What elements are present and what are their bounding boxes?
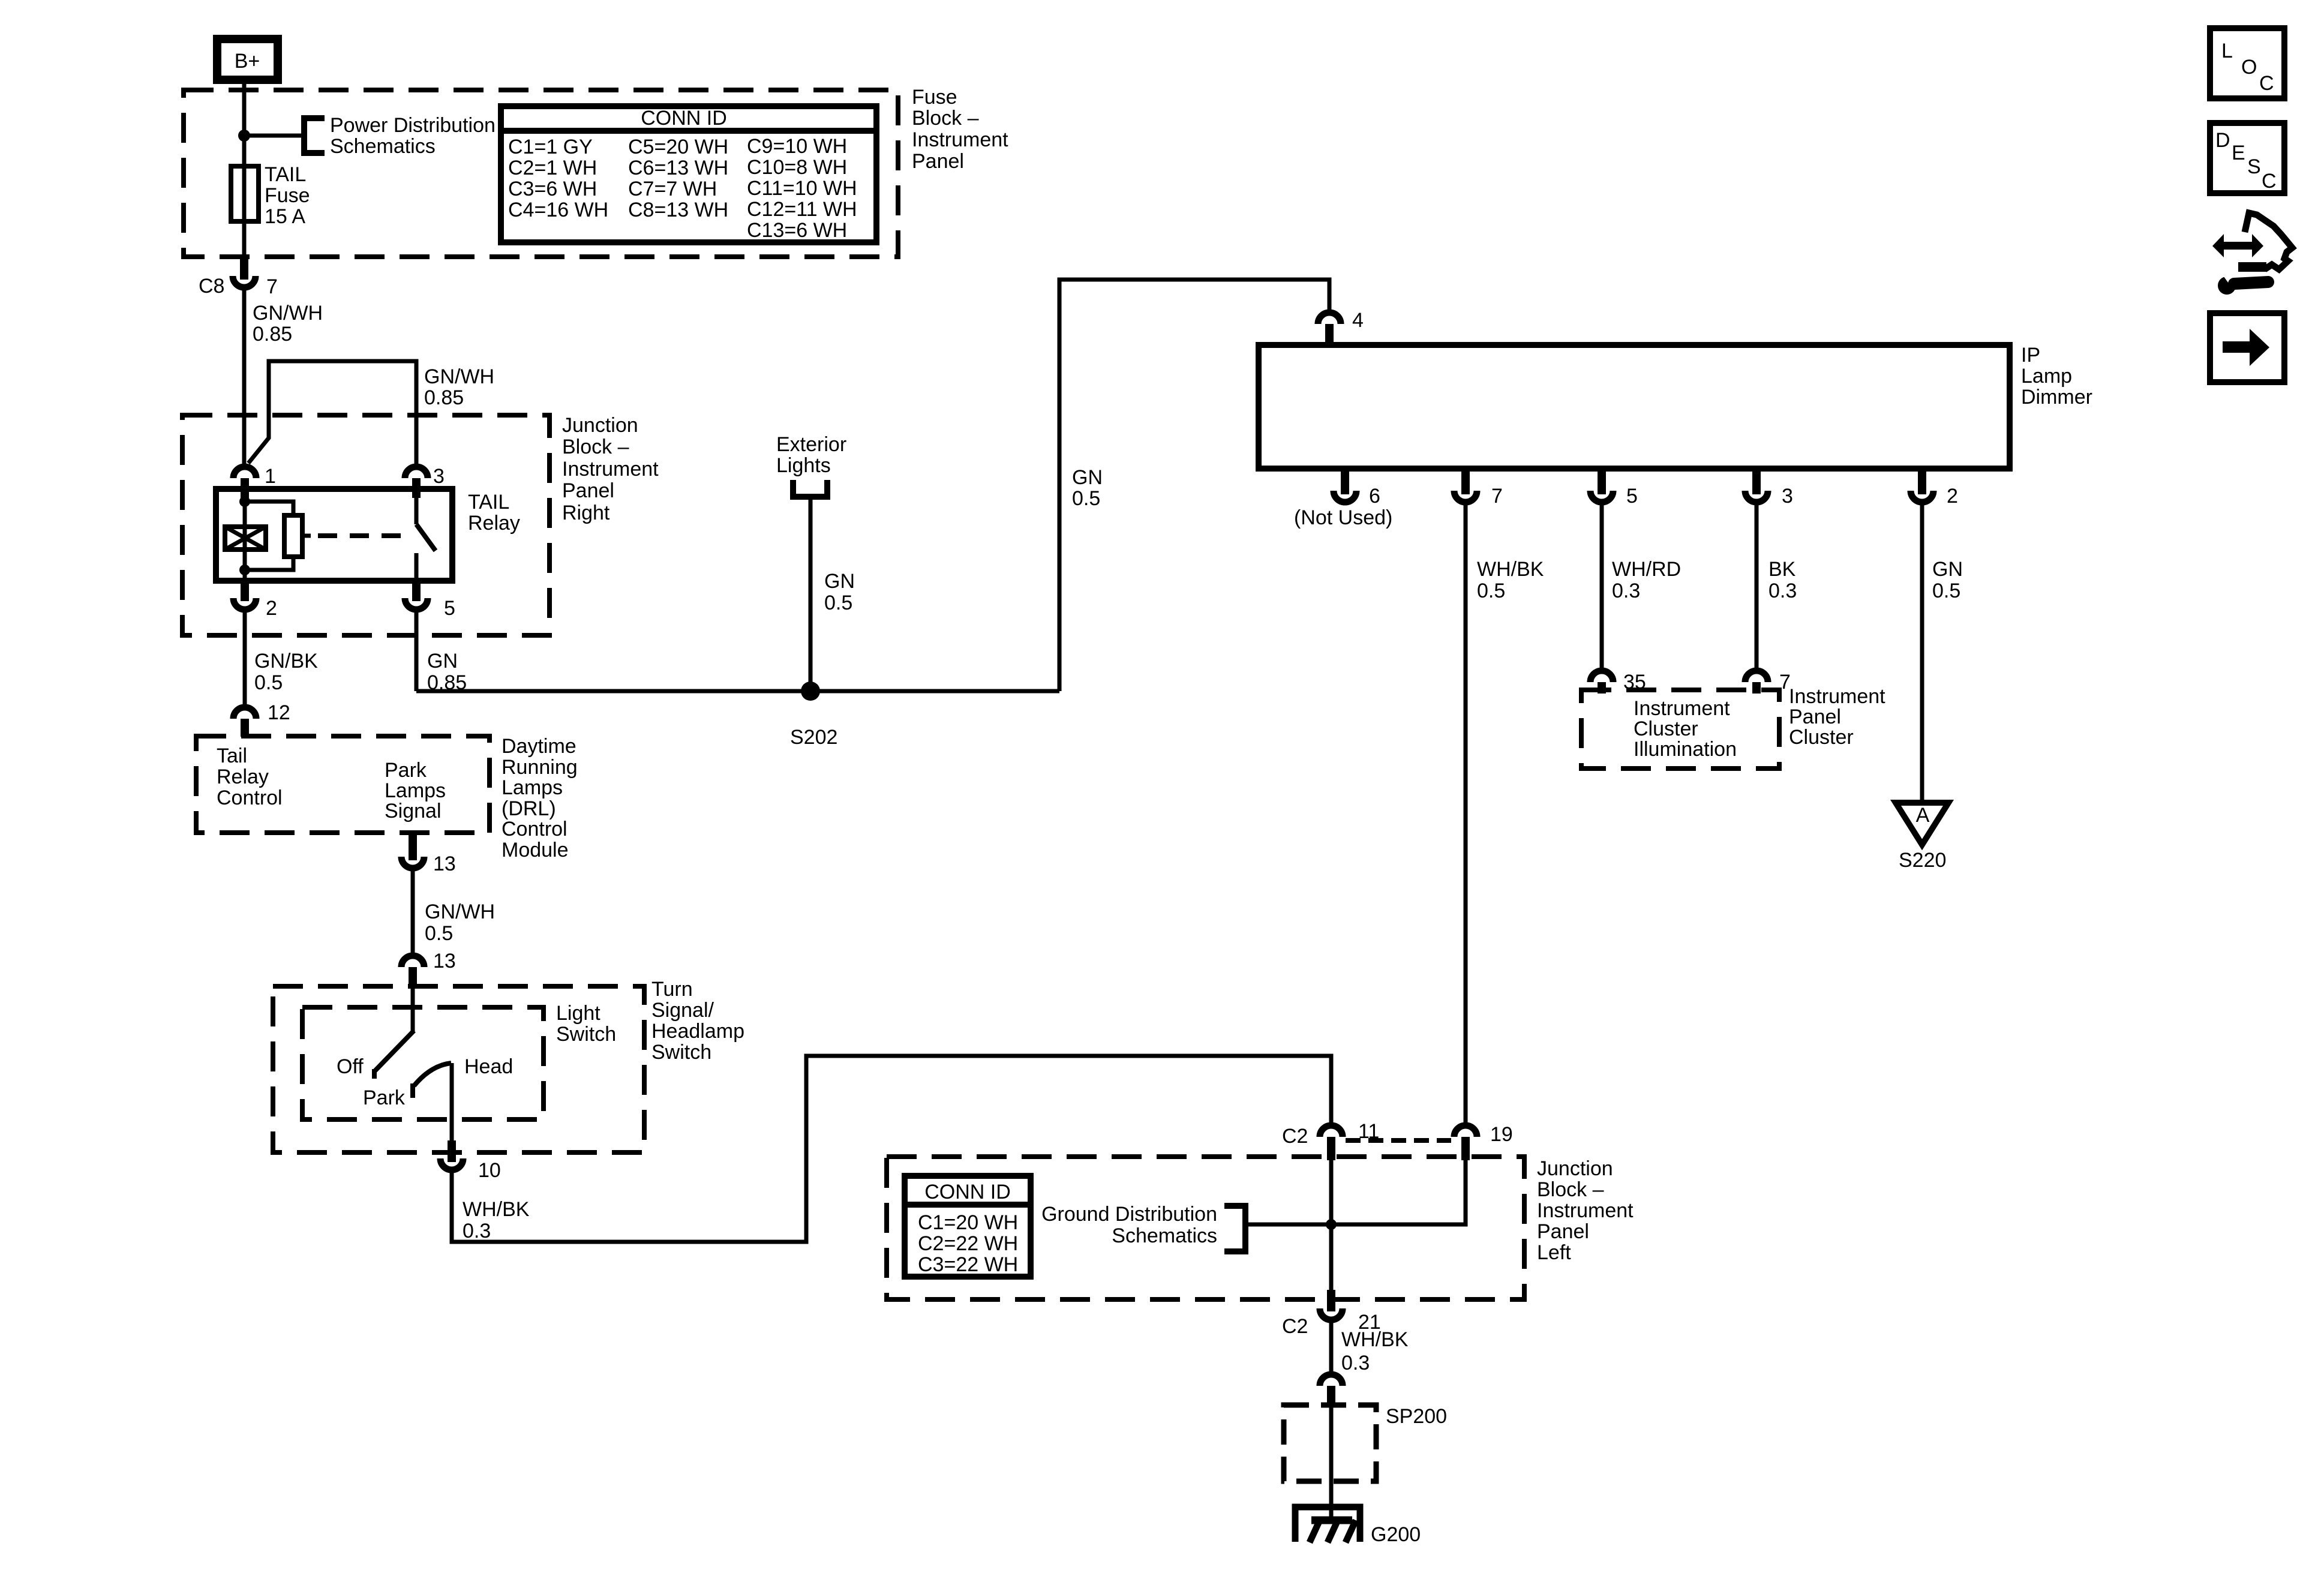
svg-text:C13=6 WH: C13=6 WH xyxy=(747,219,847,242)
label Light Switch xyxy=(556,1002,616,1046)
svg-text:2: 2 xyxy=(1947,485,1958,508)
svg-text:Instrument: Instrument xyxy=(1634,697,1730,720)
svg-text:Off: Off xyxy=(337,1055,364,1078)
svg-text:Switch: Switch xyxy=(651,1041,711,1064)
connector C8 pin 7 xyxy=(199,258,278,298)
svg-text:7: 7 xyxy=(266,275,278,298)
wire ground distribution to pin 19 xyxy=(1245,1160,1466,1224)
connector at splice SP200 xyxy=(1320,1374,1343,1406)
svg-text:Control: Control xyxy=(502,818,568,840)
node: ground distribution junction xyxy=(1326,1219,1337,1230)
svg-text:Exterior: Exterior xyxy=(776,433,846,456)
connector pin 5 xyxy=(405,581,455,620)
connector pin 10 xyxy=(440,1140,501,1182)
wire GN/WH 0.5 xyxy=(411,870,415,953)
svg-text:4: 4 xyxy=(1352,309,1364,332)
label Turn Signal/Headlamp Switch xyxy=(651,978,744,1064)
svg-text:Relay: Relay xyxy=(217,766,269,788)
svg-text:Lamps: Lamps xyxy=(385,779,446,802)
light switch wiper blade xyxy=(374,987,414,1079)
svg-text:Left: Left xyxy=(1537,1241,1571,1264)
svg-text:C2: C2 xyxy=(1282,1315,1308,1338)
wire fuse to connector C8 xyxy=(242,221,247,262)
svg-text:C2=1 WH: C2=1 WH xyxy=(508,157,597,179)
connector pin 3 xyxy=(405,465,445,498)
svg-text:Lamp: Lamp xyxy=(2021,365,2072,388)
svg-text:S: S xyxy=(2247,155,2261,178)
connector pin 5 (dimmer) xyxy=(1590,469,1638,508)
wire WH/RD 0.3 xyxy=(1600,504,1604,668)
fuse block dashed box xyxy=(184,90,898,257)
svg-text:5: 5 xyxy=(444,597,455,620)
svg-text:Relay: Relay xyxy=(468,512,520,535)
svg-text:Cluster: Cluster xyxy=(1789,726,1854,749)
svg-text:Panel: Panel xyxy=(912,150,964,173)
svg-text:C5=20 WH: C5=20 WH xyxy=(628,136,728,158)
svg-text:TAIL: TAIL xyxy=(265,163,306,186)
svg-text:Headlamp: Headlamp xyxy=(651,1020,744,1043)
svg-text:Tail: Tail xyxy=(217,745,247,767)
svg-text:S202: S202 xyxy=(790,726,837,749)
svg-text:0.3: 0.3 xyxy=(1768,580,1797,602)
connector pin 1 xyxy=(233,465,276,498)
svg-text:0.5: 0.5 xyxy=(824,592,852,614)
svg-text:TAIL: TAIL xyxy=(468,491,509,514)
svg-text:CONN ID: CONN ID xyxy=(924,1181,1011,1203)
relay switch contact xyxy=(416,496,436,581)
svg-text:Lamps: Lamps xyxy=(502,776,563,799)
svg-text:BK: BK xyxy=(1768,558,1796,581)
svg-text:0.5: 0.5 xyxy=(1932,580,1960,602)
connector C2 pin 21 xyxy=(1282,1290,1381,1338)
svg-text:Control: Control xyxy=(217,786,283,809)
svg-text:15 A: 15 A xyxy=(265,205,305,228)
svg-text:0.85: 0.85 xyxy=(253,323,292,346)
svg-text:Module: Module xyxy=(502,839,569,861)
label Park Lamps Signal xyxy=(385,759,446,822)
svg-text:CONN ID: CONN ID xyxy=(641,107,727,130)
svg-text:C4=16 WH: C4=16 WH xyxy=(508,199,608,221)
label Ground Distribution Schematics (with bracket) xyxy=(1041,1203,1245,1251)
splice SP200 dashed box xyxy=(1284,1405,1447,1481)
svg-text:Block –: Block – xyxy=(912,107,979,130)
svg-text:0.5: 0.5 xyxy=(1477,580,1505,602)
wire loop GN/WH 0.85 to pin 3 xyxy=(248,361,416,464)
connector pin 2 xyxy=(233,581,277,620)
svg-text:E: E xyxy=(2232,142,2245,164)
connector pin 2 (dimmer) xyxy=(1911,469,1958,508)
svg-text:GN: GN xyxy=(1932,558,1963,581)
svg-text:(DRL): (DRL) xyxy=(502,797,556,820)
wire GN/BK 0.5 pin2 to pin 12 xyxy=(243,612,247,704)
svg-text:0.3: 0.3 xyxy=(1612,580,1640,602)
svg-text:C: C xyxy=(2259,72,2274,95)
wire WH/BK 0.5 pin 7 down to pin 19 xyxy=(1464,504,1468,1122)
svg-text:SP200: SP200 xyxy=(1386,1405,1447,1428)
svg-text:Panel: Panel xyxy=(1537,1220,1589,1243)
svg-text:13: 13 xyxy=(433,852,456,875)
wire to Power Distribution bracket xyxy=(244,134,302,138)
svg-text:0.5: 0.5 xyxy=(425,922,453,945)
ground G200 xyxy=(1295,1507,1421,1546)
svg-text:Panel: Panel xyxy=(1789,706,1841,728)
svg-text:Fuse: Fuse xyxy=(265,184,310,207)
svg-text:0.5: 0.5 xyxy=(254,671,283,694)
label Junction Block - Instrument Panel Right xyxy=(562,414,659,524)
connector pin 7 (cluster) xyxy=(1745,671,1791,694)
svg-text:C1=20 WH: C1=20 WH xyxy=(918,1211,1018,1234)
svg-text:GN/WH: GN/WH xyxy=(424,365,494,388)
dashed mating link pin 11 to pin 19 xyxy=(1346,1138,1451,1143)
svg-text:C11=10 WH: C11=10 WH xyxy=(747,177,857,200)
node: coil top xyxy=(239,496,250,507)
svg-text:C8: C8 xyxy=(199,275,224,298)
svg-text:C10=8 WH: C10=8 WH xyxy=(747,156,847,179)
icon DESC box xyxy=(2210,123,2284,193)
svg-text:C3=22 WH: C3=22 WH xyxy=(918,1253,1018,1276)
svg-text:19: 19 xyxy=(1490,1123,1513,1146)
icon wrench / remove-install xyxy=(2212,213,2292,295)
wire BK 0.3 xyxy=(1755,504,1759,668)
connector pin 35 xyxy=(1590,671,1646,694)
svg-text:Park: Park xyxy=(363,1086,406,1109)
node S202 splice xyxy=(790,682,837,749)
instrument cluster illumination dashed box xyxy=(1581,690,1779,769)
wire WH/BK 0.3 to splice xyxy=(1329,1323,1334,1372)
connector pin 7 (dimmer) xyxy=(1454,469,1503,508)
label Power Distribution Schematics (with bracket) xyxy=(304,114,496,158)
svg-text:0.5: 0.5 xyxy=(1072,487,1100,510)
connector pin 6 (Not Used) xyxy=(1294,469,1392,529)
svg-text:WH/RD: WH/RD xyxy=(1612,558,1681,581)
junction block right dashed box xyxy=(182,415,550,635)
svg-text:G200: G200 xyxy=(1371,1523,1421,1546)
wire GN/WH 0.85 to junction block xyxy=(242,290,247,464)
svg-text:D: D xyxy=(2215,129,2230,152)
svg-text:GN: GN xyxy=(1072,466,1103,489)
svg-text:GN: GN xyxy=(427,650,458,673)
relay suppression resistor xyxy=(245,502,311,570)
svg-text:C2: C2 xyxy=(1282,1125,1308,1148)
svg-text:Instrument: Instrument xyxy=(1537,1199,1634,1222)
IP Lamp Dimmer box xyxy=(1259,344,2092,469)
CONN ID table (junction block left) xyxy=(905,1176,1031,1277)
svg-text:Head: Head xyxy=(464,1055,513,1078)
svg-text:Block –: Block – xyxy=(562,436,629,458)
svg-text:WH/BK: WH/BK xyxy=(1341,1328,1409,1351)
icon arrow box xyxy=(2210,313,2284,382)
svg-text:GN: GN xyxy=(824,570,855,593)
label Exterior Lights (with bracket) xyxy=(776,433,846,497)
junction block left dashed box xyxy=(887,1157,1524,1299)
relay actuation dashed link xyxy=(318,533,406,538)
svg-text:S220: S220 xyxy=(1899,849,1946,872)
wire through SP200 to ground xyxy=(1329,1406,1334,1520)
svg-text:GN/WH: GN/WH xyxy=(253,302,323,325)
svg-text:C: C xyxy=(2262,170,2277,193)
svg-text:Park: Park xyxy=(385,759,427,782)
label Daytime Running Lamps (DRL) Control Module xyxy=(502,735,578,861)
svg-text:C7=7 WH: C7=7 WH xyxy=(628,178,717,200)
label Instrument Panel Cluster xyxy=(1789,685,1885,749)
svg-text:GN/BK: GN/BK xyxy=(254,650,318,673)
node: junction dot on B+ feed xyxy=(238,130,250,142)
svg-text:Junction: Junction xyxy=(562,414,638,437)
connector pin 13 (light switch) xyxy=(401,950,456,987)
svg-text:Signal/: Signal/ xyxy=(651,999,714,1022)
svg-text:3: 3 xyxy=(433,465,445,488)
svg-text:WH/BK: WH/BK xyxy=(1477,558,1544,581)
wire GN 0.85 horizontal run xyxy=(416,689,1059,694)
label Tail Relay Control xyxy=(217,745,283,809)
svg-text:Light: Light xyxy=(556,1002,600,1025)
svg-text:Illumination: Illumination xyxy=(1634,738,1737,761)
svg-text:GN/WH: GN/WH xyxy=(425,900,495,923)
svg-text:Instrument: Instrument xyxy=(912,128,1008,151)
svg-text:3: 3 xyxy=(1782,485,1793,508)
svg-text:12: 12 xyxy=(268,701,290,724)
svg-text:C8=13 WH: C8=13 WH xyxy=(628,199,728,221)
connector pin 12 xyxy=(233,701,290,737)
svg-text:0.85: 0.85 xyxy=(424,386,464,409)
svg-text:1: 1 xyxy=(265,465,276,488)
connector pin 3 (dimmer) xyxy=(1745,469,1793,508)
svg-text:C2=22 WH: C2=22 WH xyxy=(918,1232,1018,1255)
wire pin 11 down xyxy=(1329,1160,1334,1292)
svg-text:Lights: Lights xyxy=(776,454,831,477)
connector pin 13 (DRL module) xyxy=(401,834,456,875)
CONN ID table (fuse block) xyxy=(501,106,876,242)
svg-text:Panel: Panel xyxy=(562,479,614,502)
svg-text:L: L xyxy=(2221,40,2233,62)
turn signal / headlamp switch outer dashed box xyxy=(273,986,644,1152)
svg-text:O: O xyxy=(2241,56,2257,79)
power terminal B+ xyxy=(217,39,278,80)
connector pin 4 xyxy=(1318,309,1364,347)
svg-text:Switch: Switch xyxy=(556,1023,616,1046)
svg-text:13: 13 xyxy=(433,950,456,972)
svg-text:Cluster: Cluster xyxy=(1634,718,1698,740)
svg-text:WH/BK: WH/BK xyxy=(463,1198,530,1221)
svg-text:IP: IP xyxy=(2021,344,2040,367)
DRL control module dashed box xyxy=(196,736,490,833)
svg-text:C6=13 WH: C6=13 WH xyxy=(628,157,728,179)
svg-text:C9=10 WH: C9=10 WH xyxy=(747,135,847,158)
svg-text:Turn: Turn xyxy=(651,978,693,1001)
wire GN 0.5 to S220 xyxy=(1920,504,1924,801)
svg-text:Ground Distribution: Ground Distribution xyxy=(1041,1203,1217,1226)
wire WH/BK 0.3 from switch to junction block left xyxy=(452,1056,1331,1242)
svg-text:Dimmer: Dimmer xyxy=(2021,386,2092,409)
svg-text:5: 5 xyxy=(1626,485,1638,508)
svg-text:Right: Right xyxy=(562,502,610,524)
svg-text:C3=6 WH: C3=6 WH xyxy=(508,178,597,200)
svg-text:0.3: 0.3 xyxy=(1341,1352,1370,1374)
svg-text:(Not Used): (Not Used) xyxy=(1294,506,1392,529)
svg-text:A: A xyxy=(1916,804,1930,827)
icon LOC box xyxy=(2210,28,2284,98)
connector C2 pin 11 xyxy=(1282,1120,1379,1160)
svg-text:Daytime: Daytime xyxy=(502,735,577,758)
svg-text:10: 10 xyxy=(478,1159,501,1182)
splice S220 triangle xyxy=(1896,803,1948,872)
svg-text:Schematics: Schematics xyxy=(330,135,436,158)
svg-text:Power Distribution: Power Distribution xyxy=(330,114,496,137)
relay TAIL Relay box xyxy=(216,489,520,581)
svg-text:C12=11 WH: C12=11 WH xyxy=(747,198,857,221)
svg-text:Signal: Signal xyxy=(385,800,442,822)
light switch inner dashed box xyxy=(302,1007,544,1119)
head contact wire down to pin 10 xyxy=(450,1063,454,1142)
svg-text:Block –: Block – xyxy=(1537,1178,1604,1201)
relay internal wiring xyxy=(243,496,247,581)
svg-text:2: 2 xyxy=(266,597,277,620)
wire B+ down to fuse xyxy=(242,84,247,168)
park contact and arc xyxy=(413,1063,451,1098)
wire GN 0.85 pin5 down xyxy=(415,612,419,691)
svg-text:6: 6 xyxy=(1369,485,1380,508)
fuse TAIL Fuse 15 A xyxy=(231,163,310,228)
svg-text:Junction: Junction xyxy=(1537,1157,1613,1180)
relay coil xyxy=(225,527,266,550)
svg-text:C1=1 GY: C1=1 GY xyxy=(508,136,593,158)
svg-text:Schematics: Schematics xyxy=(1112,1224,1217,1247)
svg-text:B+: B+ xyxy=(235,50,260,73)
svg-text:Running: Running xyxy=(502,756,578,779)
connector pin 19 xyxy=(1454,1123,1513,1160)
svg-text:0.3: 0.3 xyxy=(463,1220,491,1242)
svg-text:Fuse: Fuse xyxy=(912,86,957,109)
label Fuse Block - Instrument Panel xyxy=(912,86,1008,173)
svg-text:Instrument: Instrument xyxy=(1789,685,1885,708)
label Junction Block - Instrument Panel Left xyxy=(1537,1157,1634,1264)
wire exterior lights to S202 xyxy=(809,497,813,691)
svg-text:7: 7 xyxy=(1491,485,1503,508)
node: coil bottom xyxy=(239,565,250,575)
svg-text:Instrument: Instrument xyxy=(562,458,659,481)
wire GN 0.5 up to IP lamp dimmer pin 4 xyxy=(1059,280,1329,691)
